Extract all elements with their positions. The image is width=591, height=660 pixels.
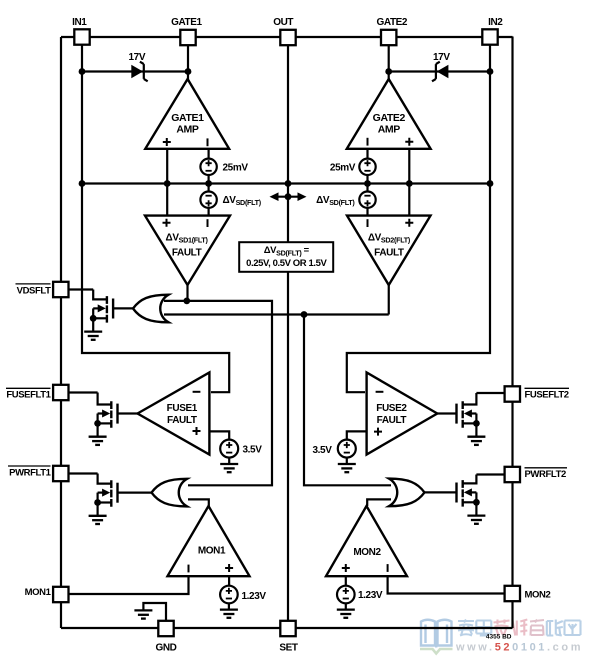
- svg-text:SET: SET: [279, 643, 298, 654]
- svg-text:AMP: AMP: [378, 124, 401, 136]
- svg-text:FAULT: FAULT: [167, 415, 197, 426]
- svg-text:GATE2: GATE2: [376, 17, 407, 28]
- svg-text:IN1: IN1: [72, 17, 87, 28]
- svg-text:FAULT: FAULT: [377, 415, 407, 426]
- svg-text:GATE1: GATE1: [171, 112, 204, 124]
- svg-text:FUSE1: FUSE1: [167, 403, 198, 414]
- svg-text:VDSFLT: VDSFLT: [17, 285, 51, 296]
- svg-text:MON2: MON2: [525, 589, 551, 600]
- svg-text:FUSEFLT2: FUSEFLT2: [525, 390, 569, 401]
- svg-text:OUT: OUT: [273, 17, 293, 28]
- svg-text:PWRFLT2: PWRFLT2: [525, 469, 566, 480]
- svg-text:MON2: MON2: [353, 547, 381, 558]
- svg-text:17V: 17V: [433, 52, 450, 63]
- svg-text:1.23V: 1.23V: [242, 591, 267, 602]
- svg-text:GATE1: GATE1: [171, 17, 202, 28]
- svg-text:25mV: 25mV: [223, 162, 249, 173]
- svg-text:MON1: MON1: [198, 546, 226, 557]
- svg-text:0.25V, 0.5V OR 1.5V: 0.25V, 0.5V OR 1.5V: [246, 258, 327, 269]
- svg-text:3.5V: 3.5V: [313, 445, 333, 456]
- svg-text:GATE2: GATE2: [373, 112, 406, 124]
- svg-text:IN2: IN2: [488, 17, 503, 28]
- svg-text:3.5V: 3.5V: [243, 444, 263, 455]
- svg-text:17V: 17V: [129, 52, 146, 63]
- svg-text:AMP: AMP: [176, 124, 199, 136]
- svg-text:4355 BD: 4355 BD: [486, 634, 512, 641]
- svg-text:FAULT: FAULT: [374, 248, 404, 259]
- svg-text:FUSE2: FUSE2: [376, 403, 407, 414]
- svg-text:PWRFLT1: PWRFLT1: [9, 467, 51, 478]
- svg-text:1.23V: 1.23V: [358, 590, 383, 601]
- svg-text:25mV: 25mV: [330, 162, 356, 173]
- svg-text:GND: GND: [155, 643, 176, 654]
- svg-text:www.520101.com: www.520101.com: [455, 642, 583, 654]
- svg-text:FAULT: FAULT: [172, 248, 202, 259]
- svg-text:FUSEFLT1: FUSEFLT1: [6, 390, 51, 401]
- svg-text:MON1: MON1: [25, 587, 52, 598]
